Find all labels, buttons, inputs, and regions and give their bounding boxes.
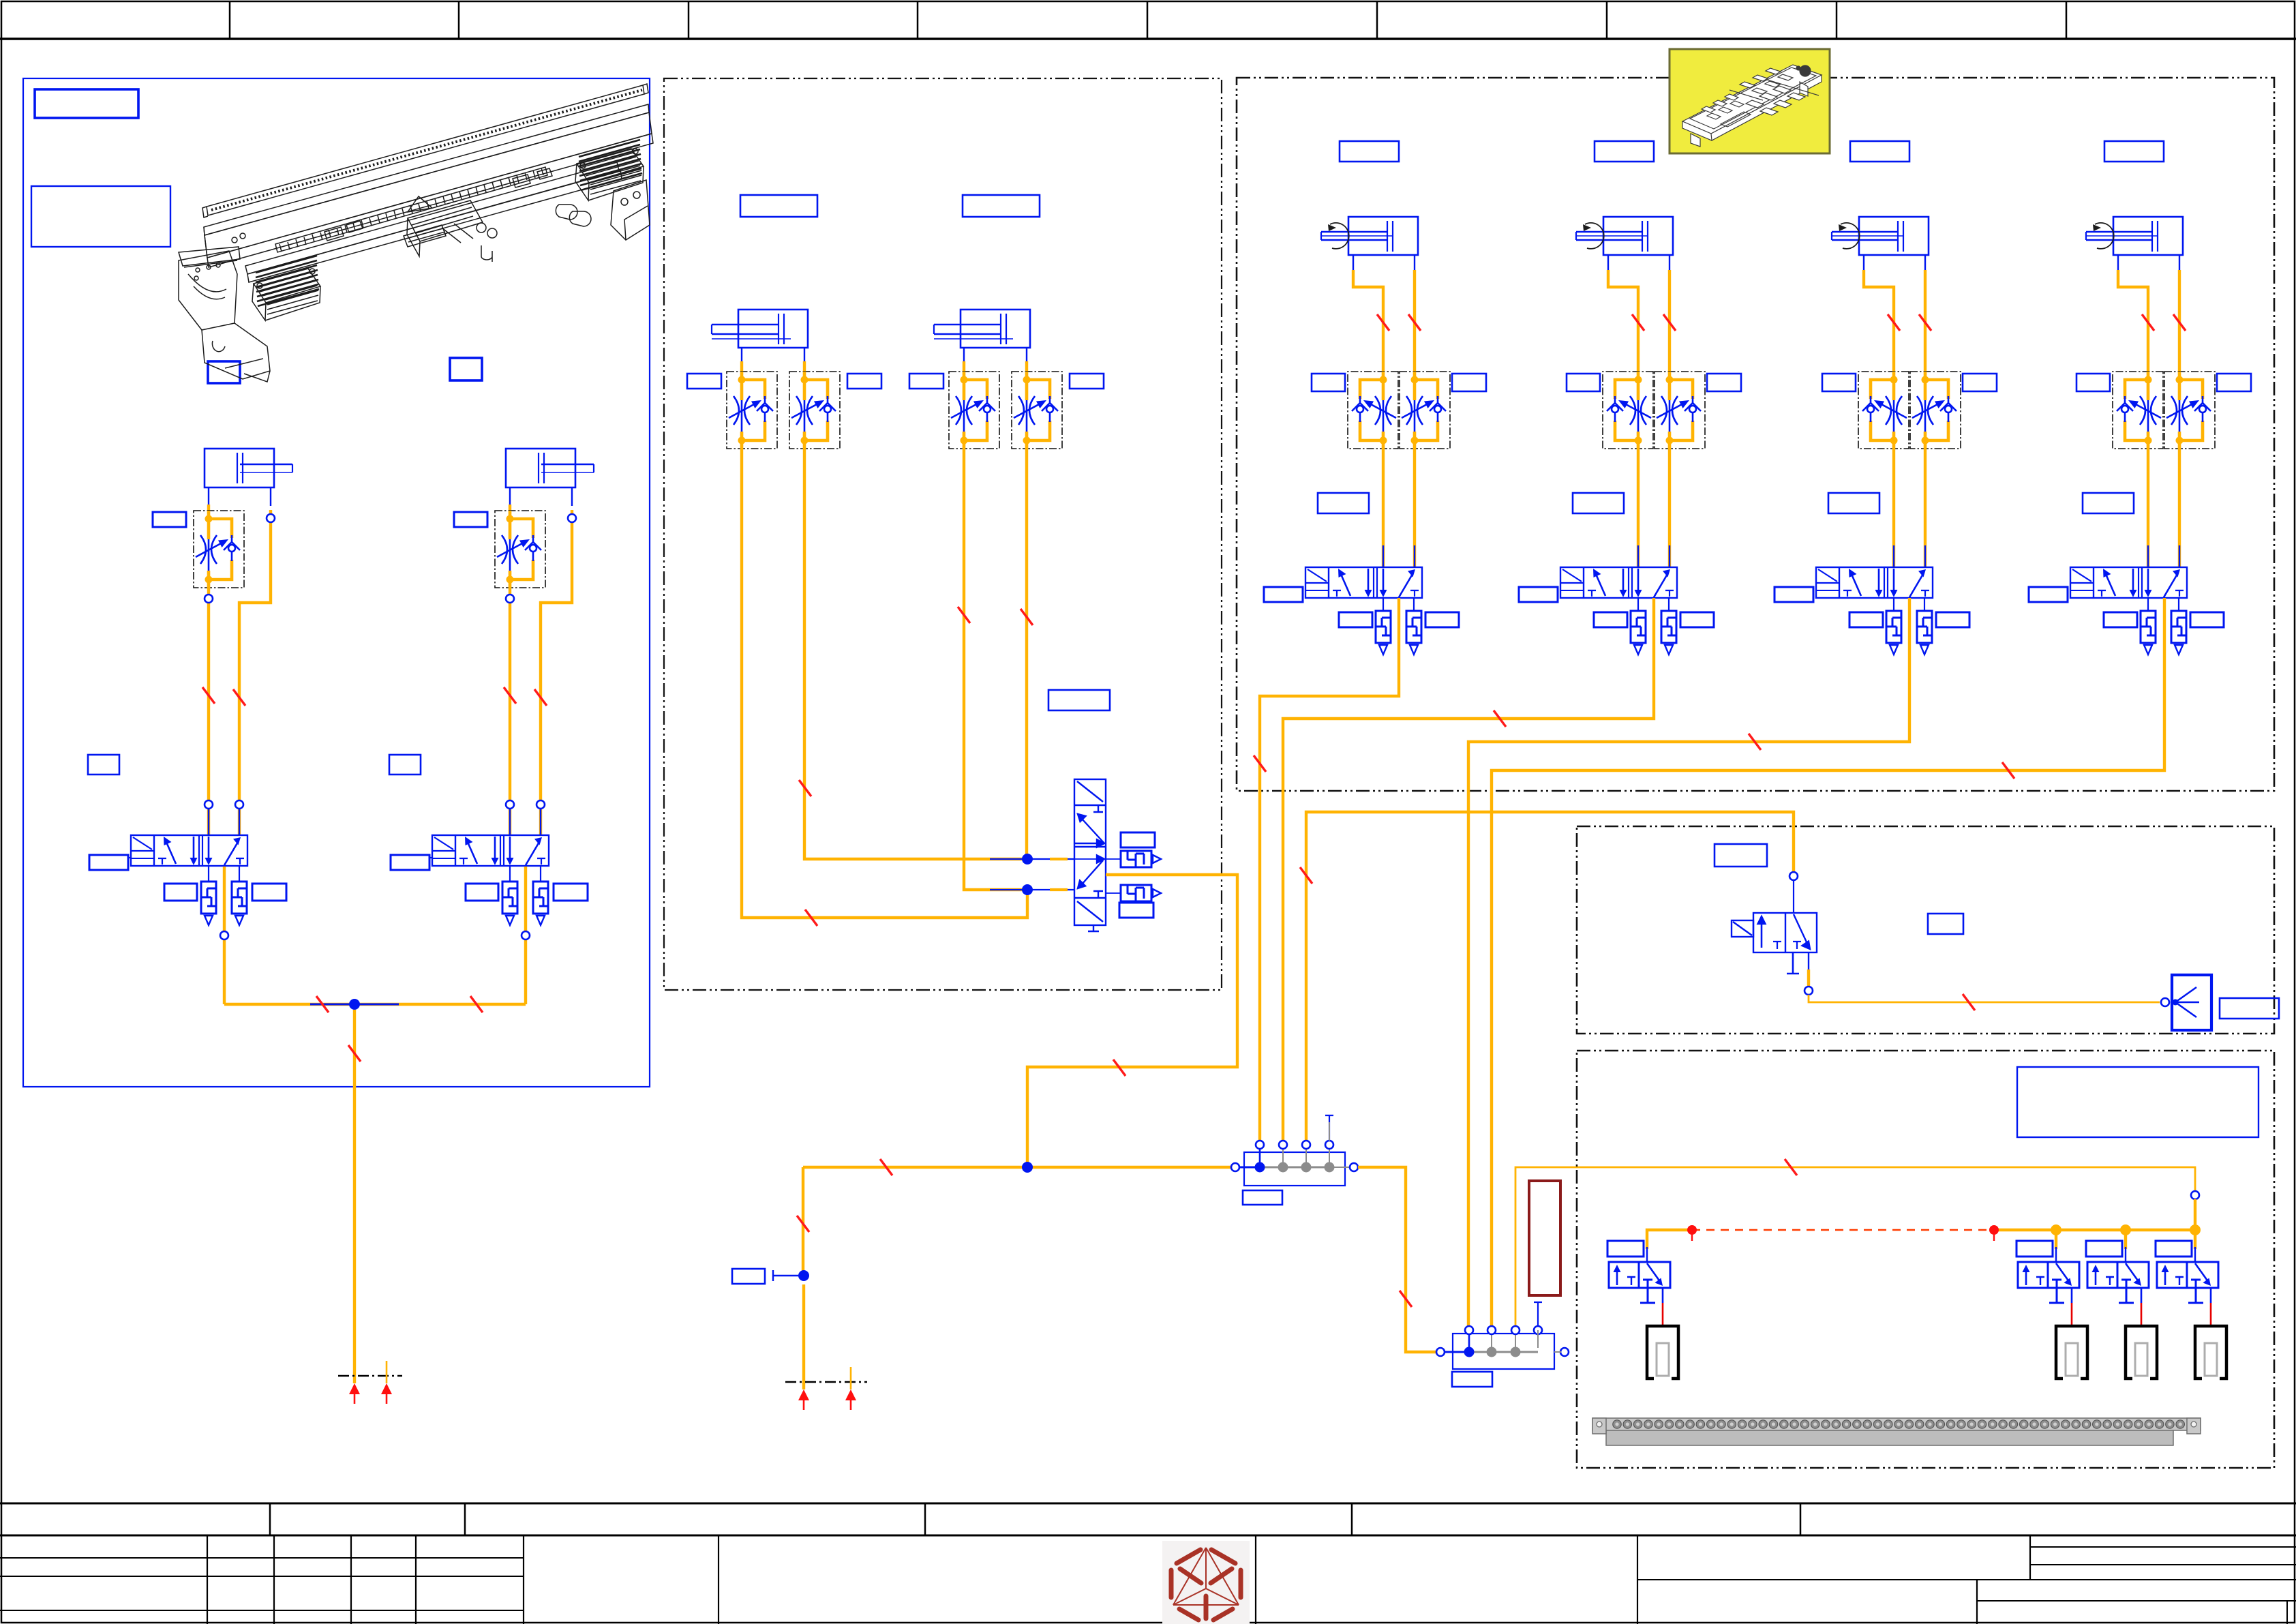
right end plate bbox=[611, 180, 650, 240]
blow valve unit 3 bbox=[2156, 1241, 2226, 1379]
title block field line n bbox=[1977, 1600, 2296, 1602]
air nozzle block bbox=[2172, 975, 2211, 1030]
port circle mid-right valve outlet bbox=[1804, 987, 1813, 995]
zone divider 7 bbox=[1606, 1, 1608, 39]
slash on left supply run bbox=[316, 996, 329, 1012]
top-right section enclosure (dash-dot) bbox=[1237, 78, 2274, 791]
slash on M1 piston-side wire bbox=[799, 780, 811, 796]
zone divider 8 bbox=[1836, 1, 1838, 39]
title block field line o bbox=[2286, 1601, 2288, 1624]
port circle on blow-off supply bbox=[2191, 1191, 2199, 1199]
port circle nozzle inlet bbox=[2161, 998, 2169, 1006]
label box middle valve bbox=[1048, 690, 1110, 710]
mid carriage bbox=[407, 200, 483, 256]
supply drop middle bbox=[802, 1284, 805, 1389]
bottom-right section enclosure (dash-dot) bbox=[1577, 1051, 2274, 1468]
5/2 valve middle (vertical) bbox=[1074, 779, 1106, 931]
revision table column 3 bbox=[350, 1535, 352, 1624]
wire R4 valve supply to manifold 2 port 2 bbox=[1492, 598, 2164, 1327]
revision table column 1 bbox=[207, 1535, 208, 1624]
cylinder unit M2 (cylinder + flow controls) bbox=[909, 195, 1104, 449]
silencer feed lower bbox=[1106, 892, 1121, 894]
junction node supply tee bbox=[1022, 1162, 1033, 1173]
valve0 supply stub bbox=[1647, 1230, 1689, 1249]
slash on right supply run bbox=[470, 996, 483, 1012]
wire R1 valve supply to manifold port 1 bbox=[1260, 598, 1399, 1142]
title block field divider f bbox=[718, 1535, 719, 1624]
wire middle valve supply bbox=[1027, 875, 1237, 1167]
actuator group R4 bbox=[2029, 141, 2251, 655]
isometric machine illustration (linear gantry axis) bbox=[179, 84, 653, 382]
title row divider b bbox=[464, 1503, 466, 1535]
title block field line k bbox=[2030, 1564, 2296, 1565]
supply boundary dash-dot left bbox=[338, 1375, 402, 1377]
label box A (top-left) bbox=[35, 89, 138, 118]
zone divider 3 bbox=[688, 1, 690, 39]
title block field divider g bbox=[1255, 1535, 1256, 1624]
supply arrow left secondary bbox=[381, 1383, 392, 1404]
supply arrow middle primary bbox=[798, 1389, 809, 1410]
rail rivets bbox=[1613, 1420, 2185, 1428]
zone divider 4 bbox=[917, 1, 919, 39]
actuator group R2 bbox=[1519, 141, 1741, 655]
revision table row 3 bbox=[0, 1610, 524, 1611]
revision table row 2 bbox=[0, 1576, 524, 1577]
plugged branch left bbox=[773, 1270, 804, 1281]
revision table row 1 bbox=[0, 1557, 524, 1559]
blow valve unit 0 (valve + nozzle) bbox=[1607, 1241, 1678, 1379]
actuator group L1 (cylinder, flow control, 5/2 valve, silencers) bbox=[88, 449, 292, 1004]
measuring rack strip bbox=[275, 167, 547, 252]
slash on manifold1 port3 wire bbox=[1300, 867, 1312, 884]
slash on M2 piston-side wire bbox=[1021, 609, 1033, 625]
yellow photo frame (valve terminal illustration) bbox=[1670, 49, 1830, 153]
wire M1 rod-side to valve port B bbox=[742, 449, 1027, 918]
junction node blow valve 2 bbox=[2120, 1224, 2131, 1235]
slash on R4 supply bbox=[2002, 762, 2014, 779]
label box supply branch bbox=[732, 1269, 765, 1284]
slash on M2 rod-side wire bbox=[958, 607, 970, 623]
wire right valve supply to junction bbox=[354, 1003, 526, 1006]
distribution manifold 1 bbox=[1231, 1141, 1358, 1186]
slash on supply riser bbox=[797, 1216, 809, 1232]
zone divider 9 bbox=[2066, 1, 2068, 39]
wire R2 valve supply to manifold port 2 bbox=[1283, 598, 1654, 1142]
blow valve unit 1 bbox=[2016, 1241, 2087, 1379]
title row divider a bbox=[269, 1503, 271, 1535]
red node left bbox=[1687, 1225, 1697, 1235]
plugged port 4 manifold 2 bbox=[1534, 1302, 1542, 1326]
slash on blow-off supply wire bbox=[1785, 1159, 1797, 1175]
distribution manifold 2 bbox=[1436, 1326, 1569, 1369]
left section enclosure (blue frame) bbox=[23, 78, 650, 1087]
red node right bbox=[1989, 1225, 1999, 1235]
supply stub wire middle secondary bbox=[850, 1367, 852, 1389]
coupler cylinders right bbox=[556, 205, 577, 220]
fittings on beam bbox=[232, 237, 237, 243]
foot clamp bbox=[202, 323, 270, 379]
motor block left bbox=[252, 269, 320, 320]
slash on main supply run bbox=[880, 1159, 892, 1175]
perforated mounting rail bbox=[1592, 1418, 2201, 1445]
zone divider 5 bbox=[1147, 1, 1149, 39]
label box manifold 2 bbox=[1452, 1372, 1492, 1387]
connector block on carriage bbox=[404, 225, 446, 247]
wire M2 rod-side to valve port B bbox=[964, 449, 1024, 890]
mid-right section enclosure (dash-dot) bbox=[1577, 826, 2274, 1034]
supply drop into blow-off section bbox=[2194, 1199, 2196, 1230]
wire left valve supply to junction bbox=[224, 1003, 354, 1006]
3/2 solenoid valve mid-right bbox=[1732, 880, 1817, 974]
middle section enclosure (dash-dot) bbox=[664, 78, 1222, 990]
label box silencer upper bbox=[1121, 832, 1155, 847]
label box mid-right supply bbox=[1715, 844, 1767, 867]
main supply wire left section bbox=[353, 1010, 356, 1383]
valve port A link bbox=[990, 858, 1074, 860]
title block field line i bbox=[2029, 1535, 2031, 1580]
actuator group R3 bbox=[1774, 141, 1997, 655]
blue tie-in at junction bbox=[310, 1004, 399, 1006]
actuator group L2 (cylinder, flow control, 5/2 valve, silencers) bbox=[389, 449, 594, 1004]
label box nozzle bbox=[2220, 998, 2279, 1019]
title block field line j bbox=[2030, 1546, 2296, 1548]
junction node blow valve 3 bbox=[2190, 1224, 2201, 1235]
slash on left main supply bbox=[348, 1045, 361, 1062]
orange overlays on valve links bbox=[1050, 859, 1068, 890]
wire manifold2 port 3 to blow-off section bbox=[1515, 1167, 2195, 1325]
slash on M1 rod-side wire bbox=[805, 909, 817, 926]
wire R3 valve supply to manifold 2 port 1 bbox=[1468, 598, 1909, 1327]
supply riser middle bbox=[802, 1167, 804, 1271]
label box silencer lower bbox=[1119, 903, 1153, 918]
zone divider 1 bbox=[229, 1, 231, 39]
actuator group R1 (rotary cylinder, flow controls, valve, silencers) bbox=[1264, 141, 1486, 655]
slash on middle valve supply bbox=[1113, 1059, 1126, 1076]
wire M2 piston-side to valve port A bbox=[1025, 449, 1028, 856]
motor block right bbox=[575, 149, 644, 200]
cable carrier top rail bbox=[207, 85, 644, 215]
title block row line bbox=[0, 1535, 2296, 1537]
junction node port B bbox=[1022, 884, 1033, 895]
safety zone rectangle (dark red) bbox=[1529, 1181, 1560, 1295]
label box left cylinder 1 bbox=[208, 361, 240, 383]
wire manifold1 port 3 to mid-right valve bbox=[1306, 812, 1794, 1142]
back beam top bbox=[204, 104, 649, 235]
label box B bbox=[31, 186, 170, 247]
title block field line m bbox=[1976, 1580, 1978, 1624]
supply arrow middle secondary bbox=[845, 1389, 856, 1410]
supply stubs to valves bbox=[2056, 1230, 2195, 1249]
junction node port A bbox=[1022, 854, 1033, 864]
zone divider 2 bbox=[458, 1, 460, 39]
revision table column 4 bbox=[415, 1535, 417, 1624]
plugged port 4 manifold 1 bbox=[1325, 1115, 1333, 1141]
junction node middle supply bbox=[798, 1270, 809, 1281]
red dashed planning line bbox=[1692, 1229, 1994, 1231]
junction node blow valve 1 bbox=[2051, 1224, 2061, 1235]
big label box bottom-right bbox=[2017, 1067, 2259, 1137]
label box mid-right aux bbox=[1928, 914, 1963, 934]
title row divider e bbox=[1800, 1503, 1802, 1535]
mid-right valve output wire bbox=[1808, 952, 1809, 972]
slash on manifold link wire bbox=[1400, 1291, 1412, 1307]
supply boundary dash-dot middle bbox=[785, 1381, 867, 1383]
supply arrow left primary bbox=[349, 1383, 360, 1404]
title block field line l bbox=[1637, 1579, 2296, 1580]
revision table column 2 bbox=[273, 1535, 275, 1624]
main supply run middle bbox=[803, 1166, 1235, 1169]
wire manifold1 out to manifold2 in bbox=[1358, 1167, 1440, 1352]
blow-off supply bus bbox=[1994, 1229, 2195, 1231]
supply stub wire left secondary bbox=[386, 1361, 388, 1383]
slash on R2 supply bbox=[1494, 710, 1506, 727]
slash on R1 supply bbox=[1254, 755, 1266, 772]
label box left cylinder 2 bbox=[450, 358, 482, 380]
slash on nozzle wire bbox=[1963, 994, 1975, 1010]
title block top line bbox=[0, 1503, 2296, 1505]
silencer upper (horizontal) bbox=[1121, 851, 1161, 867]
junction node left section bbox=[349, 999, 360, 1010]
slash on R3 supply bbox=[1749, 734, 1761, 750]
title block field divider h bbox=[1637, 1535, 1638, 1624]
title row divider c bbox=[924, 1503, 926, 1535]
warning triangle bbox=[408, 196, 432, 212]
company logo (hexagonal wireframe) bbox=[1162, 1541, 1250, 1624]
left end vertical bbox=[204, 227, 207, 258]
wire to air nozzle bbox=[1809, 995, 2160, 1002]
wire M1 piston-side to valve port A bbox=[804, 449, 1024, 859]
valve port B link bbox=[990, 889, 1074, 890]
zone divider 6 bbox=[1376, 1, 1378, 39]
silencer lower (horizontal) bbox=[1121, 885, 1161, 901]
main beam face bbox=[205, 112, 652, 258]
revision table column 5 bbox=[523, 1535, 524, 1624]
title row divider d bbox=[1351, 1503, 1353, 1535]
silencer feed upper bbox=[1106, 858, 1121, 860]
port circle mid-right valve inlet bbox=[1789, 872, 1798, 880]
cylinder unit M1 (cylinder + flow controls) bbox=[687, 195, 881, 449]
blow valve unit 2 bbox=[2086, 1241, 2157, 1379]
left bracket bbox=[179, 251, 237, 330]
label box manifold 1 bbox=[1243, 1190, 1282, 1205]
zone strip bottom line bbox=[0, 37, 2296, 40]
lower front rail bbox=[245, 162, 619, 274]
